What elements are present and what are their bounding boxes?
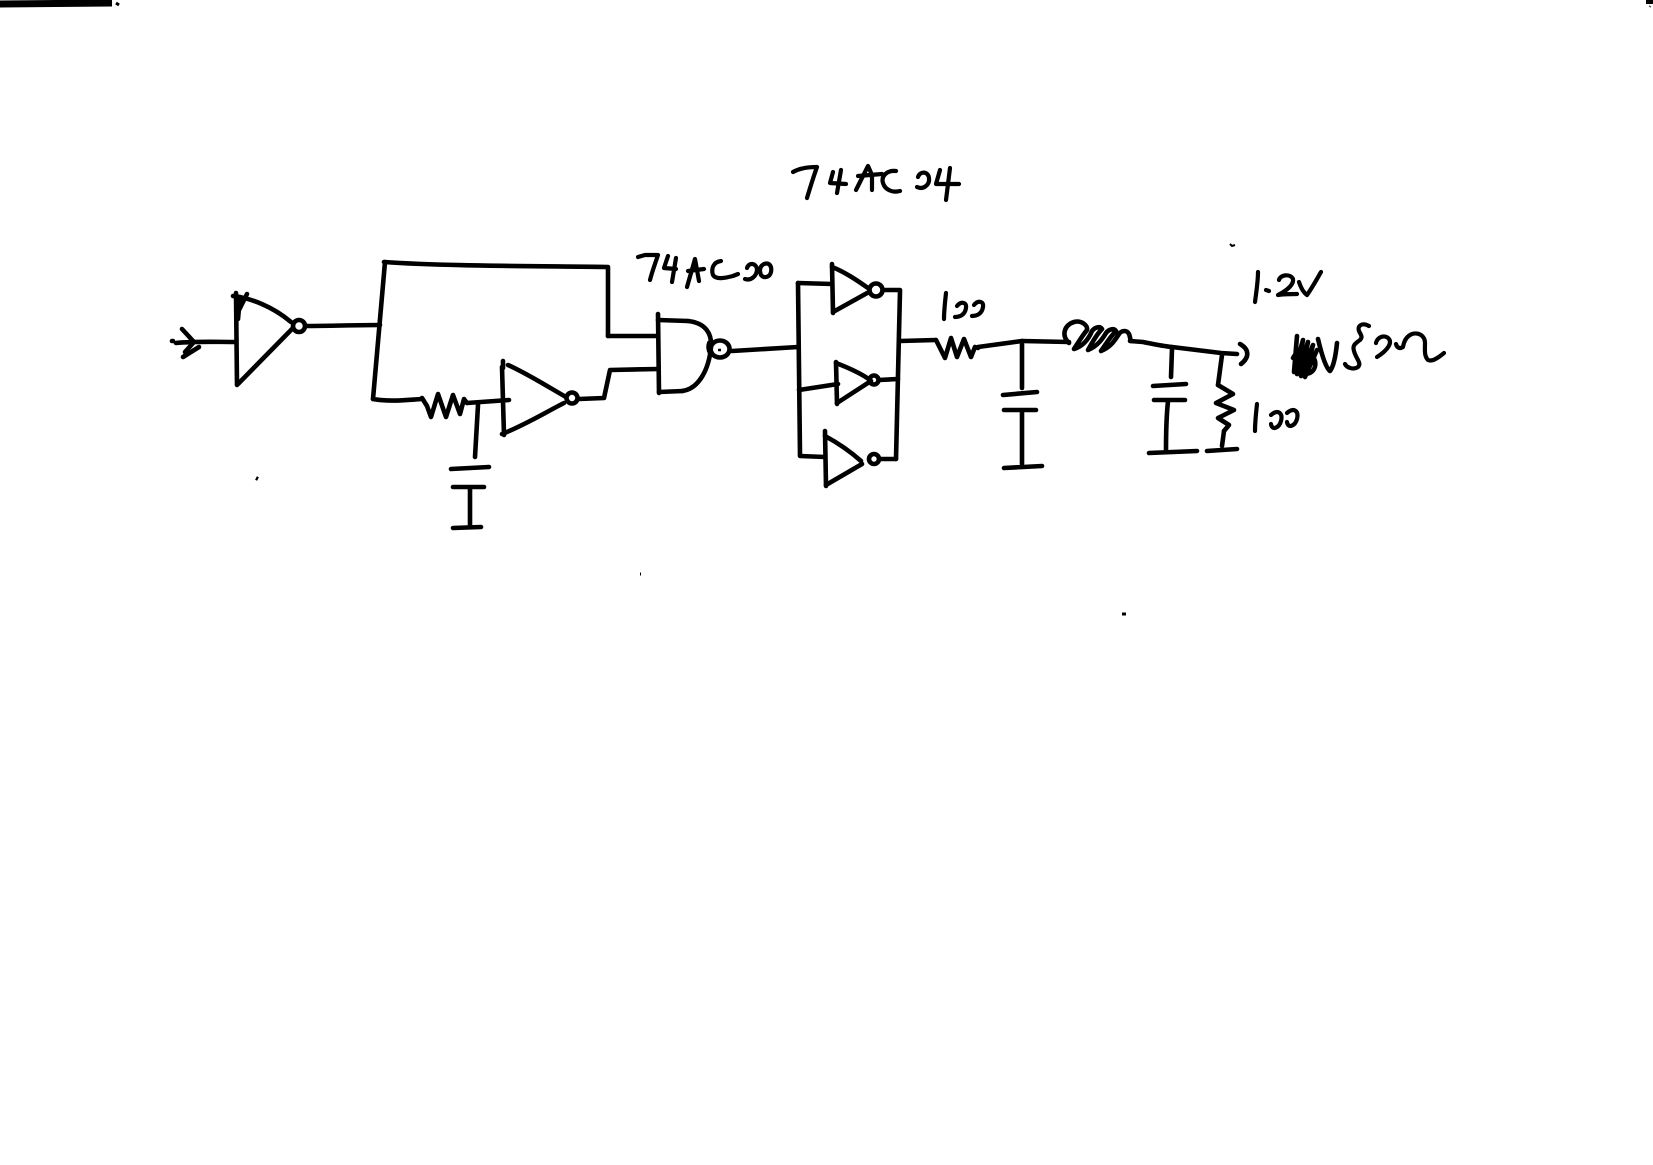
input arrow: [172, 329, 199, 357]
label 100 (R1): [944, 293, 983, 319]
wire node2 to output: [1172, 347, 1237, 354]
inverter U1b: [502, 361, 578, 435]
label 100 (R2): [1255, 404, 1297, 431]
capacitor C3: [1153, 384, 1186, 450]
scan artifact top-right corner: [1646, 0, 1653, 4]
stray dot 3: [1122, 613, 1126, 616]
resistor R-fb: [422, 394, 467, 417]
stray mark v: [1230, 244, 1235, 246]
capacitor C2 stem: [1020, 344, 1025, 388]
capacitor C1: [451, 467, 489, 526]
ground: [1149, 451, 1197, 453]
wire U1b out with jog to NAND input: [579, 369, 658, 399]
wire junction down to C1: [475, 405, 478, 457]
capacitor C2: [1003, 392, 1037, 464]
ground: [453, 527, 481, 528]
wire node to inductor: [1022, 341, 1069, 342]
stray dot 2: [640, 573, 641, 576]
output arrow: [1240, 344, 1247, 364]
wire NAND out to bank: [732, 347, 798, 351]
resistor R2 100 vertical: [1216, 355, 1234, 446]
top input wire: [798, 283, 832, 284]
label 74AC04: [793, 166, 959, 200]
inductor L1: [1064, 322, 1131, 351]
ground: [1004, 466, 1042, 468]
inverter U3b: [836, 362, 879, 404]
middle input wire: [799, 384, 838, 390]
wire U1a out to box: [306, 325, 380, 326]
capacitor C3 stem: [1171, 349, 1172, 377]
stray dot 1: [256, 478, 258, 479]
wire resistor to U1b: [467, 400, 509, 403]
output tap wire to R1: [900, 340, 936, 341]
74AC04 bank: left bus: [798, 283, 800, 455]
inverter U1a: [233, 293, 305, 385]
ground: [1207, 449, 1237, 451]
bottom input wire: [800, 456, 825, 457]
inverter U3c: [825, 431, 879, 486]
label 50ohm: [1345, 324, 1444, 368]
wire inductor to node2: [1130, 341, 1172, 347]
right bus: [896, 291, 900, 459]
inverter U3a: [832, 264, 883, 313]
scan artifact bar top-left: [0, 3, 112, 4]
feedback box (crystal loop): [373, 262, 608, 401]
wire box to NAND top input: [608, 334, 658, 339]
wire input to inverter U1a: [176, 342, 236, 343]
NAND gate U2: [658, 314, 730, 393]
label 1.2V: [1255, 272, 1321, 302]
label 74AC00: [638, 255, 771, 287]
resistor R1 100: [936, 338, 978, 358]
wire R1 to node: [978, 341, 1022, 347]
load scribble: [1293, 336, 1337, 377]
